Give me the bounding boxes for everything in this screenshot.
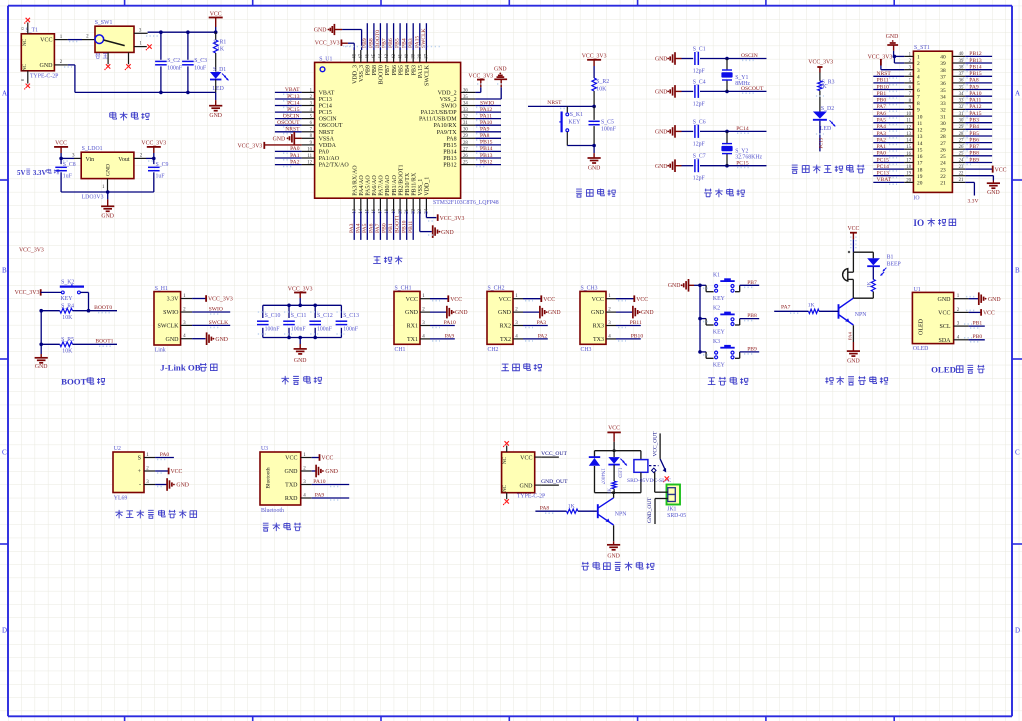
- svg-text:30: 30: [940, 121, 946, 127]
- svg-text:PA11: PA11: [480, 113, 492, 119]
- svg-text:VCC_3V3: VCC_3V3: [315, 41, 340, 47]
- svg-text:OSCOUT: OSCOUT: [741, 86, 764, 92]
- svg-text:PB12: PB12: [969, 51, 982, 57]
- svg-text:28: 28: [463, 141, 468, 146]
- svg-text:46: 46: [366, 53, 371, 58]
- svg-text:15: 15: [366, 208, 371, 213]
- svg-text:YL69: YL69: [114, 495, 128, 501]
- svg-text:11: 11: [307, 154, 312, 159]
- svg-text:VCC: VCC: [592, 297, 604, 303]
- svg-text:36: 36: [959, 79, 964, 84]
- svg-text:VCC: VCC: [406, 297, 418, 303]
- svg-text:10: 10: [917, 114, 923, 120]
- svg-text:J-Link OB: J-Link OB: [160, 363, 200, 373]
- svg-text:SRD-05: SRD-05: [667, 513, 686, 519]
- svg-text:BOOT0: BOOT0: [375, 30, 381, 48]
- svg-text:GND: GND: [641, 310, 654, 316]
- svg-text:A: A: [2, 90, 7, 98]
- svg-text:SWIO: SWIO: [163, 310, 179, 316]
- svg-text:K2: K2: [713, 306, 720, 312]
- svg-text:35: 35: [463, 95, 468, 100]
- svg-text:VDDA: VDDA: [319, 143, 337, 149]
- svg-text:3: 3: [917, 68, 920, 74]
- svg-text:PC14: PC14: [736, 126, 749, 132]
- svg-text:PB3: PB3: [411, 65, 417, 75]
- svg-text:PA1/AO: PA1/AO: [319, 156, 340, 162]
- svg-text:VSS_1: VSS_1: [418, 179, 424, 196]
- svg-text:100nF: 100nF: [343, 326, 359, 332]
- svg-text:S_LDO1: S_LDO1: [82, 146, 103, 152]
- svg-text:31: 31: [959, 112, 964, 117]
- svg-text:PB0: PB0: [877, 98, 887, 104]
- svg-text:12pF: 12pF: [693, 101, 706, 107]
- svg-text:TYPE-C-2P: TYPE-C-2P: [30, 73, 58, 79]
- svg-text:40: 40: [959, 52, 964, 57]
- svg-text:OLED: OLED: [919, 318, 925, 335]
- svg-text:RX2: RX2: [500, 324, 511, 330]
- svg-text:PA10/RX: PA10/RX: [433, 123, 457, 129]
- svg-text:GND: GND: [886, 34, 899, 40]
- svg-text:S_R2: S_R2: [596, 79, 609, 85]
- svg-text:PA9: PA9: [315, 492, 325, 498]
- svg-text:S_C12: S_C12: [317, 313, 333, 319]
- svg-text:10: 10: [307, 147, 312, 152]
- svg-text:B: B: [1015, 267, 1020, 275]
- svg-text:PA12: PA12: [480, 107, 492, 113]
- svg-text:12: 12: [906, 125, 911, 130]
- svg-text:SWCLK: SWCLK: [425, 64, 431, 86]
- svg-text:S_D2: S_D2: [821, 106, 834, 112]
- svg-text:16: 16: [917, 154, 923, 160]
- svg-text:PA4: PA4: [848, 332, 853, 340]
- svg-text:30: 30: [463, 128, 468, 133]
- svg-text:S_C6: S_C6: [693, 119, 706, 125]
- svg-text:PB11: PB11: [408, 221, 414, 233]
- svg-text:IO: IO: [913, 218, 924, 228]
- svg-text:1K: 1K: [808, 303, 815, 309]
- svg-text:GND: GND: [938, 297, 952, 303]
- svg-text:GND: GND: [294, 358, 307, 364]
- svg-text:10K: 10K: [596, 87, 607, 93]
- svg-text:PA7: PA7: [375, 223, 381, 233]
- svg-text:18: 18: [906, 165, 911, 170]
- svg-text:BOOT0: BOOT0: [379, 65, 385, 84]
- svg-text:PB1: PB1: [388, 223, 394, 233]
- svg-text:VCC: VCC: [285, 456, 297, 462]
- svg-text:VCC: VCC: [543, 297, 555, 303]
- svg-text:13: 13: [917, 134, 923, 140]
- svg-text:GND: GND: [325, 469, 338, 475]
- svg-text:PB8: PB8: [747, 313, 757, 319]
- svg-text:PC15: PC15: [877, 157, 890, 163]
- svg-text:PB6: PB6: [392, 65, 398, 75]
- svg-text:5: 5: [917, 81, 920, 87]
- svg-text:CH2: CH2: [488, 347, 499, 353]
- svg-text:Vout: Vout: [118, 157, 130, 163]
- svg-text:RX3: RX3: [593, 324, 604, 330]
- svg-text:K3: K3: [713, 339, 720, 345]
- svg-text:U3: U3: [261, 446, 268, 452]
- svg-text:GND: GND: [441, 230, 454, 236]
- svg-text:PB7: PB7: [969, 144, 979, 150]
- svg-text:12pF: 12pF: [693, 69, 706, 75]
- svg-text:LDO3V3: LDO3V3: [82, 195, 104, 201]
- svg-text:PB5: PB5: [398, 65, 404, 75]
- svg-text:39: 39: [411, 53, 416, 58]
- svg-text:15: 15: [906, 145, 911, 150]
- svg-text:47: 47: [359, 53, 364, 58]
- svg-text:PB0/AO: PB0/AO: [385, 174, 391, 195]
- svg-text:7: 7: [917, 94, 920, 100]
- svg-text:PC15: PC15: [287, 107, 300, 113]
- svg-text:VBAT: VBAT: [285, 87, 300, 93]
- svg-text:23: 23: [959, 165, 964, 170]
- svg-text:CH3: CH3: [581, 347, 592, 353]
- svg-text:KEY: KEY: [61, 296, 74, 302]
- svg-text:S_D1: S_D1: [213, 67, 226, 73]
- svg-text:38: 38: [418, 53, 423, 58]
- svg-text:PB11: PB11: [630, 320, 642, 326]
- svg-text:33: 33: [959, 99, 964, 104]
- svg-text:PB7: PB7: [747, 280, 757, 286]
- svg-text:PB11/RX: PB11/RX: [411, 172, 417, 196]
- svg-text:PA10: PA10: [969, 91, 981, 97]
- svg-text:20: 20: [906, 178, 911, 183]
- svg-text:S_C2: S_C2: [167, 58, 180, 64]
- svg-text:18: 18: [917, 167, 923, 173]
- svg-text:32: 32: [959, 105, 964, 110]
- svg-text:25: 25: [959, 152, 964, 157]
- svg-text:100nF: 100nF: [265, 326, 281, 332]
- svg-text:SDA: SDA: [938, 338, 951, 344]
- svg-text:BOOT1: BOOT1: [395, 215, 401, 233]
- svg-text:TX3: TX3: [593, 337, 604, 343]
- svg-text:PA9/TX: PA9/TX: [437, 130, 457, 136]
- svg-text:OSCOUT: OSCOUT: [319, 123, 343, 129]
- svg-text:GND: GND: [520, 483, 534, 489]
- svg-text:CH1: CH1: [395, 347, 406, 353]
- svg-text:OLED: OLED: [913, 346, 928, 352]
- svg-text:GND: GND: [209, 113, 222, 119]
- svg-text:42: 42: [392, 53, 397, 58]
- svg-text:3.3V: 3.3V: [967, 199, 978, 205]
- svg-text:1K: 1K: [820, 84, 828, 90]
- svg-text:10uF: 10uF: [194, 65, 207, 71]
- svg-text:VCC: VCC: [847, 226, 859, 232]
- svg-text:PA6/AO: PA6/AO: [372, 175, 378, 196]
- svg-text:3.3V: 3.3V: [33, 170, 47, 177]
- svg-text:PB15: PB15: [969, 71, 982, 77]
- svg-text:GND_OUT: GND_OUT: [541, 479, 568, 485]
- svg-text:PB10: PB10: [401, 220, 407, 233]
- svg-text:6: 6: [917, 88, 920, 94]
- svg-text:PA10: PA10: [480, 120, 492, 126]
- svg-text:PB15: PB15: [443, 143, 456, 149]
- svg-text:PA9: PA9: [969, 84, 979, 90]
- svg-text:PB0: PB0: [973, 334, 983, 340]
- svg-text:PB12: PB12: [480, 159, 493, 165]
- svg-text:VSS_2: VSS_2: [440, 97, 457, 103]
- svg-text:VCC_3V3: VCC_3V3: [141, 141, 166, 147]
- svg-text:GND: GND: [166, 337, 180, 343]
- svg-text:GND: GND: [655, 90, 668, 96]
- svg-text:VCC: VCC: [938, 311, 950, 317]
- svg-text:27: 27: [463, 147, 468, 152]
- svg-text:21: 21: [959, 178, 964, 183]
- svg-text:S_R4: S_R4: [61, 304, 74, 310]
- svg-text:22: 22: [959, 172, 964, 177]
- svg-text:14: 14: [359, 208, 364, 213]
- svg-text:22: 22: [411, 208, 416, 213]
- svg-text:26: 26: [463, 154, 468, 159]
- svg-text:PB9: PB9: [366, 65, 372, 75]
- svg-text:8MHz: 8MHz: [735, 81, 750, 87]
- svg-text:PA3: PA3: [349, 223, 355, 233]
- svg-text:26: 26: [959, 145, 964, 150]
- svg-text:PB13: PB13: [969, 58, 982, 64]
- svg-text:PB9: PB9: [969, 157, 979, 163]
- svg-text:SWCLK: SWCLK: [158, 324, 180, 330]
- svg-text:S_C13: S_C13: [343, 313, 359, 319]
- svg-text:1N4007: 1N4007: [600, 468, 605, 485]
- svg-text:21: 21: [940, 181, 946, 187]
- svg-text:PA7: PA7: [877, 104, 887, 110]
- svg-text:K1: K1: [713, 272, 720, 278]
- svg-text:PC14: PC14: [319, 104, 332, 110]
- svg-text:PB10/TX: PB10/TX: [405, 172, 411, 196]
- svg-text:PA5: PA5: [877, 118, 887, 124]
- svg-text:S_C5: S_C5: [601, 120, 614, 126]
- svg-text:LED: LED: [213, 86, 224, 92]
- svg-text:GND: GND: [548, 310, 561, 316]
- svg-text:20: 20: [398, 208, 403, 213]
- svg-text:15: 15: [917, 147, 923, 153]
- svg-text:JK1: JK1: [667, 507, 676, 513]
- svg-text:PB0: PB0: [382, 223, 388, 233]
- svg-text:100nF: 100nF: [291, 326, 307, 332]
- svg-text:PA5: PA5: [362, 223, 368, 233]
- svg-text:33: 33: [940, 101, 946, 107]
- svg-text:PA12: PA12: [969, 104, 981, 110]
- svg-text:S_R5: S_R5: [61, 337, 74, 343]
- svg-text:PB9: PB9: [747, 347, 757, 353]
- svg-text:11: 11: [906, 119, 911, 124]
- svg-text:PB5: PB5: [969, 131, 979, 137]
- svg-text:VCC_3V3: VCC_3V3: [208, 297, 233, 303]
- svg-text:VCC_3V3: VCC_3V3: [582, 54, 607, 60]
- svg-text:PA7/AO: PA7/AO: [379, 175, 385, 196]
- svg-text:35: 35: [940, 88, 946, 94]
- svg-text:100nF: 100nF: [317, 326, 333, 332]
- svg-text:OSCIN: OSCIN: [319, 117, 338, 123]
- svg-text:PB8: PB8: [372, 65, 378, 75]
- svg-text:NC: NC: [502, 456, 508, 464]
- svg-text:17: 17: [379, 208, 384, 213]
- svg-text:VCC: VCC: [321, 456, 333, 462]
- svg-text:48: 48: [352, 53, 357, 58]
- svg-text:31: 31: [940, 114, 946, 120]
- svg-text:16: 16: [906, 152, 911, 157]
- svg-text:1uF: 1uF: [63, 174, 73, 180]
- svg-text:SCL: SCL: [939, 324, 950, 330]
- svg-text:11: 11: [917, 121, 922, 127]
- svg-text:38: 38: [940, 68, 946, 74]
- svg-text:VBAT: VBAT: [319, 90, 335, 96]
- svg-text:S_CH2: S_CH2: [488, 286, 505, 292]
- svg-text:PA8: PA8: [480, 133, 490, 139]
- svg-text:KEY: KEY: [713, 363, 726, 369]
- svg-text:13: 13: [352, 208, 357, 213]
- svg-text:VCC_3V3: VCC_3V3: [237, 144, 262, 150]
- svg-text:GND: GND: [106, 164, 112, 176]
- svg-text:2: 2: [917, 61, 920, 67]
- svg-text:PA8: PA8: [969, 78, 979, 84]
- svg-text:NC: NC: [22, 38, 28, 46]
- svg-text:U1: U1: [914, 287, 921, 293]
- svg-text:28: 28: [959, 132, 964, 137]
- svg-text:KEY: KEY: [713, 329, 726, 335]
- svg-text:VCC: VCC: [608, 426, 620, 432]
- svg-text:PB1/AO: PB1/AO: [392, 174, 398, 195]
- svg-text:14: 14: [917, 141, 923, 147]
- svg-text:43: 43: [385, 53, 390, 58]
- svg-text:PA4/AO: PA4/AO: [359, 175, 365, 196]
- svg-text:25: 25: [463, 161, 468, 166]
- svg-text:S_ST1: S_ST1: [914, 45, 930, 51]
- svg-text:NRST: NRST: [319, 130, 335, 136]
- svg-text:PA2/TX/AO: PA2/TX/AO: [319, 163, 350, 169]
- svg-text:PA0: PA0: [877, 151, 887, 157]
- svg-text:GND: GND: [655, 130, 668, 136]
- svg-text:C: C: [2, 449, 7, 457]
- svg-text:PA9: PA9: [480, 127, 490, 133]
- svg-text:S_C10: S_C10: [265, 313, 281, 319]
- svg-text:GND: GND: [285, 469, 299, 475]
- svg-text:SWIO: SWIO: [480, 100, 494, 106]
- svg-text:PB12: PB12: [443, 163, 456, 169]
- svg-text:PB10: PB10: [877, 84, 890, 90]
- svg-text:PA0: PA0: [319, 149, 329, 155]
- svg-text:PC13: PC13: [319, 97, 332, 103]
- svg-text:VDD_1: VDD_1: [425, 177, 431, 196]
- svg-text:40: 40: [940, 55, 946, 61]
- svg-text:13: 13: [906, 132, 911, 137]
- svg-text:VCC_3V3: VCC_3V3: [15, 290, 40, 296]
- svg-text:28: 28: [940, 134, 946, 140]
- svg-text:29: 29: [463, 134, 468, 139]
- svg-text:GND: GND: [607, 554, 620, 560]
- svg-text:GND: GND: [40, 63, 54, 69]
- svg-text:PC13: PC13: [877, 171, 890, 177]
- svg-text:PA2: PA2: [877, 137, 887, 143]
- svg-text:37: 37: [940, 75, 946, 81]
- svg-text:36: 36: [463, 88, 468, 93]
- svg-text:17: 17: [917, 161, 923, 167]
- svg-text:VBAT: VBAT: [877, 177, 892, 183]
- svg-text:PA4: PA4: [355, 223, 361, 233]
- svg-text:S_U1: S_U1: [319, 56, 332, 62]
- svg-text:100nF: 100nF: [167, 65, 183, 71]
- svg-text:12pF: 12pF: [693, 141, 706, 147]
- svg-text:VCC: VCC: [55, 141, 67, 147]
- svg-text:25: 25: [940, 154, 946, 160]
- svg-text:RX1: RX1: [407, 324, 418, 330]
- svg-text:10K: 10K: [62, 349, 73, 355]
- svg-text:VCC: VCC: [450, 297, 462, 303]
- svg-text:GND: GND: [588, 166, 601, 172]
- svg-text:1: 1: [917, 55, 920, 61]
- svg-text:PA6: PA6: [369, 223, 375, 233]
- svg-text:LED: LED: [617, 468, 622, 478]
- svg-text:Vin: Vin: [86, 157, 95, 163]
- svg-text:SWCLK: SWCLK: [421, 28, 427, 48]
- svg-text:OSCIN: OSCIN: [283, 113, 300, 119]
- svg-text:PB11: PB11: [877, 78, 889, 84]
- svg-text:GND: GND: [455, 310, 468, 316]
- svg-text:S_C8: S_C8: [63, 162, 76, 168]
- svg-text:35: 35: [959, 85, 964, 90]
- svg-text:10: 10: [906, 112, 911, 117]
- svg-text:100nF: 100nF: [601, 126, 617, 132]
- svg-text:LED: LED: [820, 126, 831, 132]
- svg-text:1K: 1K: [608, 488, 613, 495]
- svg-text:32: 32: [463, 115, 468, 120]
- svg-text:PC14: PC14: [877, 164, 890, 170]
- svg-text:37: 37: [425, 53, 430, 58]
- svg-text:PA8: PA8: [446, 136, 456, 142]
- svg-text:VSSA: VSSA: [319, 136, 335, 142]
- svg-text:PA15: PA15: [418, 65, 424, 78]
- svg-text:NPN: NPN: [855, 312, 867, 318]
- svg-text:32: 32: [940, 108, 946, 114]
- svg-text:40: 40: [405, 53, 410, 58]
- svg-text:BOOT1: BOOT1: [95, 339, 113, 345]
- svg-text:17: 17: [906, 159, 911, 164]
- svg-text:23: 23: [940, 167, 946, 173]
- svg-text:Bluetooth: Bluetooth: [261, 508, 284, 514]
- svg-text:27: 27: [940, 141, 946, 147]
- svg-text:24: 24: [940, 161, 946, 167]
- svg-text:8: 8: [917, 101, 920, 107]
- svg-text:VCC: VCC: [210, 11, 222, 17]
- svg-text:21: 21: [405, 208, 410, 213]
- svg-text:GND: GND: [988, 297, 1001, 303]
- svg-text:PA10: PA10: [444, 320, 456, 326]
- svg-text:S_C3: S_C3: [194, 58, 207, 64]
- svg-text:1K: 1K: [217, 47, 225, 53]
- svg-text:Bluetooth: Bluetooth: [266, 467, 272, 489]
- svg-text:VSS_3: VSS_3: [359, 65, 365, 82]
- svg-text:1K: 1K: [568, 504, 575, 510]
- svg-text:VCC: VCC: [983, 311, 995, 317]
- svg-text:29: 29: [940, 128, 946, 134]
- svg-text:KEY: KEY: [713, 296, 726, 302]
- svg-text:44: 44: [379, 53, 384, 58]
- svg-text:VCC_3V3: VCC_3V3: [440, 216, 465, 222]
- svg-text:S_CH3: S_CH3: [581, 286, 598, 292]
- svg-text:GND: GND: [273, 136, 286, 142]
- svg-text:VCC: VCC: [171, 469, 183, 475]
- svg-text:23: 23: [418, 208, 423, 213]
- svg-text:KEY: KEY: [568, 120, 581, 126]
- svg-text:GND: GND: [668, 283, 681, 289]
- svg-text:VCC_OUT: VCC_OUT: [653, 431, 659, 457]
- svg-text:SWCLK: SWCLK: [209, 320, 229, 326]
- svg-text:GND_OUT: GND_OUT: [647, 497, 653, 523]
- svg-text:VCC: VCC: [995, 167, 1007, 173]
- svg-text:27: 27: [959, 138, 964, 143]
- svg-text:19: 19: [917, 174, 923, 180]
